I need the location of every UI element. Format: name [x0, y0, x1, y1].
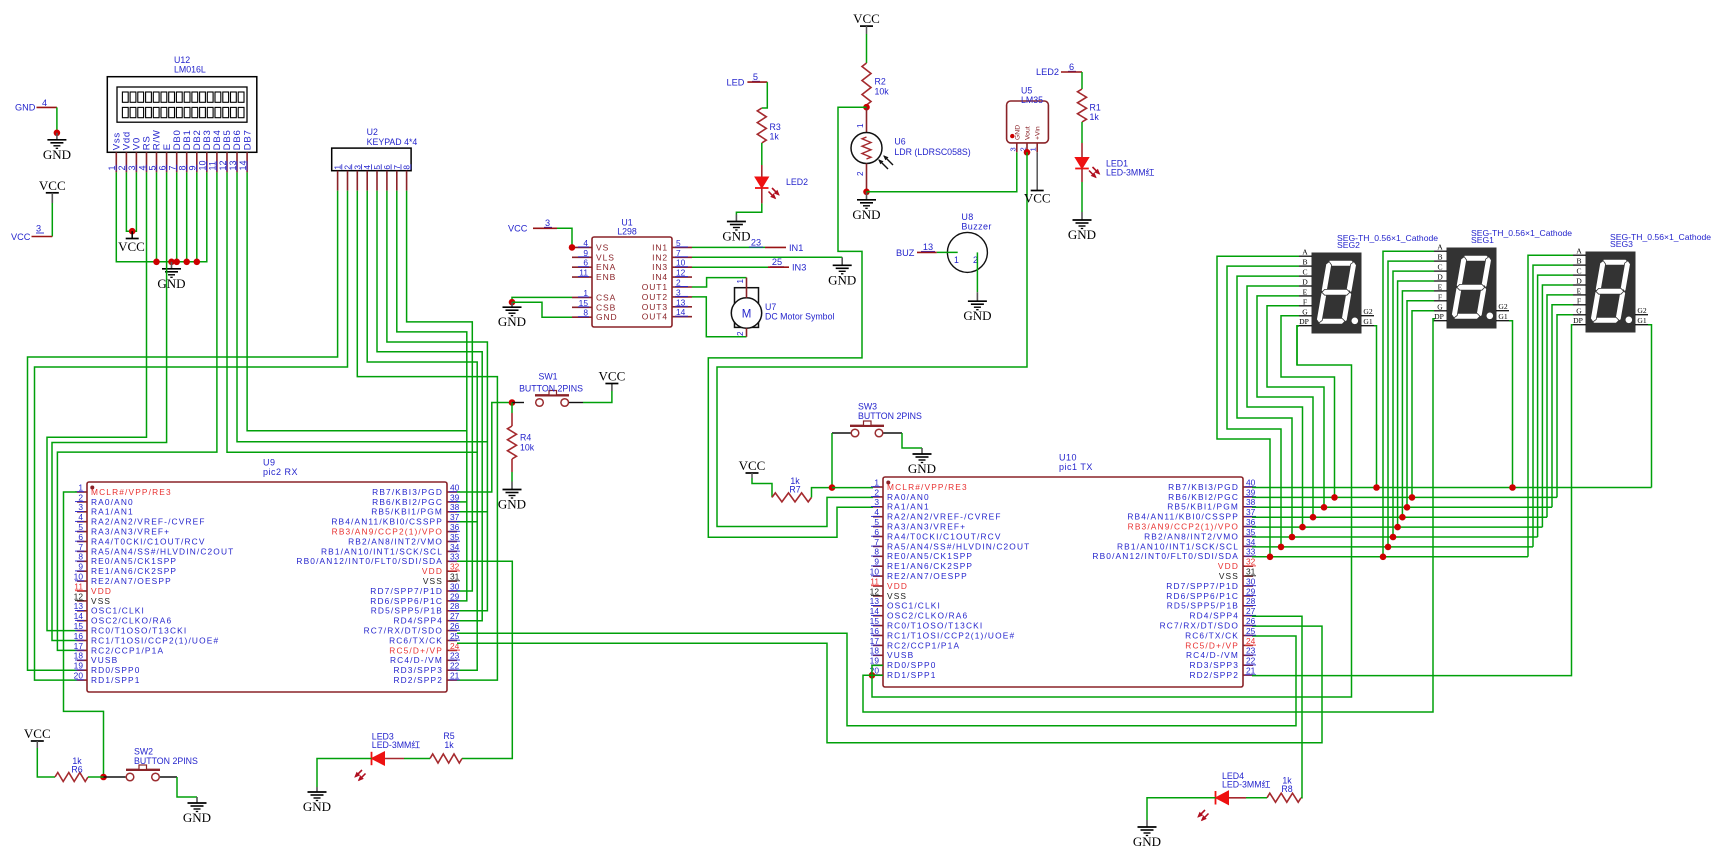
LED3 LED-3MM	[354, 731, 430, 781]
wire SEG1 E	[1402, 291, 1434, 517]
svg-text:ENB: ENB	[596, 272, 616, 282]
svg-text:14: 14	[870, 606, 880, 616]
junction	[1373, 484, 1380, 491]
svg-text:RA3/AN3/VREF+: RA3/AN3/VREF+	[887, 522, 966, 532]
svg-text:VUSB: VUSB	[887, 650, 914, 660]
svg-text:MCLR#/VPP/RE3: MCLR#/VPP/RE3	[887, 482, 968, 492]
junction	[1399, 514, 1406, 521]
svg-text:C: C	[1576, 267, 1581, 276]
svg-text:D: D	[1437, 273, 1443, 282]
svg-text:RD5/SPP5/P1B: RD5/SPP5/P1B	[371, 606, 443, 616]
power VCC	[853, 11, 880, 26]
svg-text:20: 20	[74, 671, 84, 681]
svg-text:3: 3	[352, 165, 362, 170]
svg-text:DP: DP	[1299, 317, 1309, 326]
svg-text:GND: GND	[498, 497, 526, 512]
wire	[176, 172, 178, 261]
svg-text:19: 19	[870, 656, 880, 666]
svg-text:6: 6	[1069, 62, 1074, 72]
svg-text:RB1/AN10/INT1/SCK/SCL: RB1/AN10/INT1/SCK/SCL	[321, 546, 443, 556]
svg-text:LED: LED	[727, 78, 745, 88]
wire	[196, 172, 198, 261]
svg-text:35: 35	[450, 532, 460, 542]
junction	[1310, 514, 1317, 521]
ground	[908, 448, 936, 476]
svg-text:A: A	[1576, 247, 1582, 256]
svg-text:34: 34	[450, 542, 460, 552]
svg-text:1: 1	[78, 482, 83, 492]
wire SEG3 A	[1528, 255, 1573, 557]
svg-text:39: 39	[450, 492, 460, 502]
LED4 LED-3MM	[1197, 771, 1270, 821]
svg-text:CSA: CSA	[596, 292, 616, 302]
wire	[247, 172, 467, 430]
PIC U9 pic2 RX	[74, 458, 460, 693]
svg-text:RA0/AN0: RA0/AN0	[91, 497, 134, 507]
svg-text:F: F	[1577, 296, 1581, 305]
svg-text:36: 36	[450, 522, 460, 532]
svg-text:2: 2	[117, 165, 127, 170]
svg-text:1k: 1k	[1090, 112, 1100, 122]
svg-text:F: F	[1438, 292, 1442, 301]
svg-text:3: 3	[676, 287, 681, 297]
wire	[457, 633, 1296, 726]
svg-text:28: 28	[1246, 596, 1256, 606]
svg-text:RB6/KBI2/PGC: RB6/KBI2/PGC	[1168, 492, 1239, 502]
svg-text:18: 18	[74, 651, 84, 661]
wire	[1081, 122, 1083, 143]
wire	[57, 172, 217, 650]
wire SEG2 C	[1237, 276, 1299, 537]
svg-text:11: 11	[208, 161, 218, 170]
svg-text:E: E	[1303, 287, 1308, 296]
svg-text:G1: G1	[1363, 317, 1372, 326]
svg-text:2: 2	[78, 492, 83, 502]
svg-text:C: C	[1437, 263, 1442, 272]
svg-text:RB7/KBI3/PGD: RB7/KBI3/PGD	[372, 487, 443, 497]
wire bus RB1 row pin 34	[1252, 546, 1533, 548]
svg-text:RE2/AN7/OESPP: RE2/AN7/OESPP	[91, 576, 172, 586]
svg-text:RA0/AN0: RA0/AN0	[887, 492, 930, 502]
svg-text:15: 15	[579, 298, 589, 308]
svg-text:19: 19	[74, 661, 84, 671]
svg-text:U2: U2	[367, 127, 378, 137]
wire SEG2 D	[1247, 286, 1303, 527]
wire	[47, 172, 147, 630]
resistor R1 1k	[1078, 89, 1101, 122]
svg-text:RC6/TX/CK: RC6/TX/CK	[389, 635, 443, 645]
svg-text:RB2/AN8/INT2/VMO: RB2/AN8/INT2/VMO	[1144, 531, 1239, 541]
net label GND pin 4	[15, 98, 57, 113]
svg-text:RD0/SPP0: RD0/SPP0	[91, 665, 141, 675]
svg-text:5: 5	[874, 517, 879, 527]
svg-text:RB3/AN9/CCP2(1)/VPO: RB3/AN9/CCP2(1)/VPO	[332, 527, 443, 537]
svg-text:7: 7	[676, 248, 681, 258]
svg-text:8: 8	[583, 308, 588, 318]
svg-text:4: 4	[137, 165, 147, 170]
svg-text:M: M	[742, 309, 752, 321]
ground	[828, 257, 856, 287]
wire	[752, 473, 772, 497]
svg-text:9: 9	[188, 165, 198, 170]
wire SEG1 D	[1398, 281, 1434, 527]
wire SEG2 DP	[1297, 326, 1299, 365]
seven-segment display SEG2	[1299, 233, 1438, 333]
wire	[937, 251, 958, 253]
wire SEG3 G	[1557, 315, 1573, 498]
svg-text:RC6/TX/CK: RC6/TX/CK	[1185, 630, 1239, 640]
ground	[1068, 212, 1096, 242]
wire	[512, 302, 572, 317]
svg-text:12: 12	[870, 586, 880, 596]
svg-text:23: 23	[1246, 646, 1256, 656]
switch SW3 BUTTON 2PINS	[832, 402, 922, 437]
svg-text:10k: 10k	[875, 87, 890, 97]
svg-text:RD6/SPP6/P1C: RD6/SPP6/P1C	[370, 596, 443, 606]
svg-text:C: C	[1302, 268, 1307, 277]
svg-text:6: 6	[382, 165, 392, 170]
junction	[1289, 534, 1296, 541]
svg-text:GND: GND	[303, 799, 331, 814]
svg-text:13: 13	[870, 596, 880, 606]
svg-text:10: 10	[870, 567, 880, 577]
svg-text:SW1: SW1	[538, 372, 557, 382]
svg-text:BUZ: BUZ	[896, 248, 915, 258]
svg-text:RE2/AN7/OESPP: RE2/AN7/OESPP	[887, 571, 968, 581]
svg-text:6: 6	[78, 532, 83, 542]
svg-text:OUT3: OUT3	[642, 302, 668, 312]
wire	[866, 26, 868, 63]
svg-text:1: 1	[736, 279, 745, 284]
svg-text:1: 1	[954, 255, 959, 265]
svg-text:6: 6	[874, 527, 879, 537]
svg-text:OSC1/CLKI: OSC1/CLKI	[887, 601, 941, 611]
svg-text:4: 4	[583, 238, 588, 248]
junction	[100, 774, 107, 781]
junction	[509, 399, 516, 406]
svg-text:R3: R3	[770, 122, 781, 132]
svg-text:7: 7	[78, 542, 83, 552]
svg-text:SW3: SW3	[858, 402, 877, 412]
svg-text:VDD: VDD	[887, 581, 908, 591]
svg-text:14: 14	[74, 611, 84, 621]
wire bus RB0 row pin 33	[1252, 556, 1528, 558]
svg-text:12: 12	[676, 268, 686, 278]
svg-text:BUTTON 2PINS: BUTTON 2PINS	[858, 411, 922, 421]
wire SEG3 DP	[1252, 325, 1573, 676]
svg-text:GND: GND	[852, 207, 880, 222]
svg-text:RA1/AN1: RA1/AN1	[91, 507, 134, 517]
svg-text:U5: U5	[1021, 86, 1032, 96]
svg-text:GND: GND	[183, 810, 211, 825]
svg-text:36: 36	[1246, 517, 1256, 527]
wire	[457, 626, 1322, 743]
ground	[852, 192, 880, 222]
svg-text:RD3/SPP3: RD3/SPP3	[1189, 660, 1239, 670]
svg-text:G2: G2	[1498, 302, 1507, 311]
svg-text:DB7: DB7	[242, 129, 253, 150]
svg-text:U9: U9	[263, 458, 276, 468]
wire	[863, 319, 1435, 712]
wire	[736, 203, 761, 214]
svg-text:26: 26	[1246, 616, 1256, 626]
svg-text:RC2/CCP1/P1A: RC2/CCP1/P1A	[91, 645, 164, 655]
wire SEG3 E	[1547, 295, 1573, 517]
svg-text:DC Motor Symbol: DC Motor Symbol	[765, 312, 834, 322]
junction	[509, 299, 516, 306]
svg-text:VCC: VCC	[599, 369, 626, 384]
svg-text:RD7/SPP7/P1D: RD7/SPP7/P1D	[370, 586, 443, 596]
svg-text:24: 24	[1246, 636, 1256, 646]
resistor R6 1k	[55, 756, 104, 782]
wire	[761, 143, 763, 165]
svg-text:5: 5	[147, 165, 157, 170]
svg-text:GND: GND	[1133, 834, 1161, 849]
svg-text:30: 30	[450, 581, 460, 591]
wire SEG1 A	[1383, 251, 1434, 557]
svg-text:VCC: VCC	[11, 232, 31, 242]
wire	[457, 511, 487, 513]
wire	[156, 172, 158, 261]
wire	[902, 433, 922, 448]
net label IN1 pin 23	[749, 238, 803, 253]
svg-text:RE0/AN5/CK1SPP: RE0/AN5/CK1SPP	[887, 551, 973, 561]
svg-text:A: A	[1302, 248, 1308, 257]
svg-text:4: 4	[42, 98, 47, 108]
svg-text:LED2: LED2	[1036, 67, 1059, 77]
power VCC	[39, 178, 66, 193]
svg-text:R4: R4	[520, 433, 531, 443]
svg-text:13: 13	[676, 297, 686, 307]
svg-text:GND: GND	[963, 308, 991, 323]
svg-text:32: 32	[1246, 557, 1256, 567]
wire	[976, 252, 978, 292]
wire	[457, 521, 477, 523]
svg-text:RB5/KBI1/PGM: RB5/KBI1/PGM	[1167, 502, 1239, 512]
svg-text:3: 3	[545, 218, 550, 228]
wire	[692, 266, 768, 268]
svg-text:5: 5	[753, 72, 758, 82]
svg-text:13: 13	[74, 601, 84, 611]
junction	[863, 189, 870, 196]
junction	[1299, 524, 1306, 531]
svg-text:BUTTON 2PINS: BUTTON 2PINS	[134, 756, 198, 766]
svg-text:VSS: VSS	[91, 596, 111, 606]
seven-segment display SEG1	[1434, 228, 1572, 328]
svg-text:LED-3MM红: LED-3MM红	[372, 739, 421, 750]
svg-text:VCC: VCC	[39, 178, 66, 193]
svg-text:GND: GND	[1068, 227, 1096, 242]
svg-text:33: 33	[1246, 547, 1256, 557]
wire SEG2 A	[1217, 256, 1299, 557]
svg-text:RA1/AN1: RA1/AN1	[887, 502, 930, 512]
ground	[1133, 820, 1161, 849]
svg-text:21: 21	[450, 671, 460, 681]
wire	[1036, 152, 1038, 190]
svg-text:VCC: VCC	[508, 224, 528, 234]
svg-text:E: E	[1438, 282, 1443, 291]
svg-text:G2: G2	[1637, 306, 1646, 315]
svg-text:OSC2/CLKO/RA6: OSC2/CLKO/RA6	[887, 611, 968, 621]
svg-text:R8: R8	[1281, 784, 1292, 794]
svg-text:6: 6	[583, 258, 588, 268]
svg-text:RC4/D-/VM: RC4/D-/VM	[390, 655, 443, 665]
svg-text:RD1/SPP1: RD1/SPP1	[887, 670, 937, 680]
resistor R3 1k	[757, 108, 781, 143]
svg-text:IN1: IN1	[789, 243, 803, 253]
wire SEG2 G1	[1374, 326, 1377, 488]
svg-text:DP: DP	[1434, 312, 1444, 321]
wire SEG3 G1	[1648, 325, 1652, 488]
wire	[28, 191, 338, 671]
wire	[52, 172, 167, 640]
wire	[717, 152, 1027, 526]
wire	[1081, 182, 1083, 212]
wire SEG2 G	[1281, 316, 1335, 498]
svg-text:BUTTON 2PINS: BUTTON 2PINS	[519, 384, 583, 394]
svg-text:KEYPAD 4*4: KEYPAD 4*4	[367, 137, 418, 147]
svg-text:15: 15	[870, 616, 880, 626]
wire SEG2 B	[1227, 266, 1299, 547]
svg-text:37: 37	[450, 512, 460, 522]
svg-text:5: 5	[78, 522, 83, 532]
wire	[512, 297, 572, 302]
svg-text:GND: GND	[1014, 125, 1021, 140]
svg-text:7: 7	[168, 165, 178, 170]
power VCC	[739, 458, 766, 473]
wire SEG3 F	[1552, 305, 1573, 508]
svg-text:VS: VS	[596, 242, 609, 252]
svg-text:5: 5	[372, 165, 382, 170]
svg-text:VCC: VCC	[739, 458, 766, 473]
wire	[177, 777, 197, 797]
net label VCC pin 3	[11, 224, 52, 243]
svg-text:11: 11	[579, 268, 588, 278]
wire	[692, 297, 747, 337]
wire	[872, 326, 1352, 697]
svg-text:D: D	[1576, 277, 1582, 286]
svg-text:13: 13	[228, 160, 238, 170]
svg-text:8: 8	[178, 165, 188, 170]
svg-text:GND: GND	[828, 272, 856, 287]
svg-text:14: 14	[676, 307, 686, 317]
svg-text:22: 22	[450, 661, 460, 671]
svg-text:40: 40	[450, 482, 460, 492]
svg-text:OSC2/CLKO/RA6: OSC2/CLKO/RA6	[91, 616, 172, 626]
junction	[1321, 504, 1328, 511]
svg-text:RB0/AN12/INT0/FLT0/SDI/SDA: RB0/AN12/INT0/FLT0/SDI/SDA	[296, 556, 443, 566]
svg-text:25: 25	[772, 257, 782, 267]
svg-text:RA5/AN4/SS#/HLVDIN/C2OUT: RA5/AN4/SS#/HLVDIN/C2OUT	[887, 541, 1030, 551]
svg-text:1: 1	[107, 165, 117, 170]
wire	[51, 193, 53, 237]
svg-text:40: 40	[1246, 477, 1256, 487]
wire	[1252, 616, 1302, 798]
wire	[708, 107, 873, 537]
svg-text:pic2 RX: pic2 RX	[263, 467, 298, 477]
svg-text:CSB: CSB	[596, 302, 616, 312]
svg-text:39: 39	[1246, 487, 1256, 497]
svg-text:RE1/AN6/CK2SPP: RE1/AN6/CK2SPP	[91, 566, 177, 576]
svg-text:RB1/AN10/INT1/SCK/SCL: RB1/AN10/INT1/SCK/SCL	[1117, 541, 1239, 551]
svg-text:1: 1	[583, 288, 588, 298]
svg-text:31: 31	[1246, 567, 1256, 577]
svg-text:ENA: ENA	[596, 262, 616, 272]
svg-text:G2: G2	[1363, 307, 1372, 316]
svg-text:RC1/T1OSI/CCP2(1)/UOE#: RC1/T1OSI/CCP2(1)/UOE#	[91, 635, 219, 645]
svg-text:B: B	[1302, 258, 1307, 267]
ground	[303, 787, 331, 814]
svg-text:RA2/AN2/VREF-/CVREF: RA2/AN2/VREF-/CVREF	[91, 517, 206, 527]
svg-text:F: F	[1303, 297, 1307, 306]
wire	[387, 191, 488, 611]
wire	[872, 674, 883, 676]
svg-text:3: 3	[127, 165, 137, 170]
svg-text:10: 10	[676, 258, 686, 268]
svg-text:U8: U8	[961, 212, 973, 222]
svg-text:18: 18	[870, 646, 880, 656]
svg-text:12: 12	[74, 591, 84, 601]
svg-text:12: 12	[218, 160, 228, 170]
svg-text:RE1/AN6/CK2SPP: RE1/AN6/CK2SPP	[887, 561, 973, 571]
wire	[186, 172, 188, 261]
svg-text:4: 4	[362, 165, 372, 170]
svg-text:3: 3	[36, 224, 41, 234]
ground	[183, 797, 211, 825]
svg-text:SEG1: SEG1	[1471, 235, 1494, 245]
svg-text:OUT2: OUT2	[642, 292, 668, 302]
svg-text:U6: U6	[894, 137, 905, 147]
LED1 LED-3MM	[1075, 143, 1154, 182]
svg-text:22: 22	[1246, 656, 1256, 666]
DC motor U7	[731, 278, 834, 337]
ground	[157, 262, 185, 291]
svg-text:8: 8	[874, 547, 879, 557]
svg-text:3: 3	[874, 497, 879, 507]
svg-text:pic1 TX: pic1 TX	[1059, 462, 1093, 472]
wire	[872, 665, 883, 675]
wire	[377, 191, 482, 621]
svg-text:SEG2: SEG2	[1337, 240, 1360, 250]
svg-text:Vout: Vout	[1025, 126, 1032, 140]
junction	[569, 244, 576, 251]
svg-text:RB7/KBI3/PGD: RB7/KBI3/PGD	[1168, 482, 1239, 492]
wire bus RB3 row pin 36	[1252, 526, 1542, 528]
svg-text:RA3/AN3/VREF+: RA3/AN3/VREF+	[91, 527, 170, 537]
svg-text:RD6/SPP6/P1C: RD6/SPP6/P1C	[1166, 591, 1239, 601]
wire	[1147, 798, 1216, 820]
svg-text:35: 35	[1246, 527, 1256, 537]
wire	[1081, 72, 1083, 89]
wire bus RB4 row pin 37	[1252, 516, 1547, 518]
resistor R8 1k	[1267, 776, 1301, 803]
svg-text:8: 8	[78, 552, 83, 562]
svg-text:IN4: IN4	[652, 272, 668, 282]
svg-text:RD0/SPP0: RD0/SPP0	[887, 660, 937, 670]
svg-text:R2: R2	[875, 77, 886, 87]
temperature sensor U5 LM35	[1007, 86, 1049, 153]
svg-text:27: 27	[450, 611, 460, 621]
svg-text:3: 3	[78, 502, 83, 512]
wire	[397, 191, 467, 601]
svg-text:37: 37	[1246, 507, 1256, 517]
svg-text:U12: U12	[174, 55, 190, 65]
wire bus RB2 row pin 35	[1252, 536, 1538, 538]
wire	[457, 561, 512, 758]
svg-text:9: 9	[874, 557, 879, 567]
wire	[35, 191, 348, 680]
svg-text:32: 32	[450, 562, 460, 572]
